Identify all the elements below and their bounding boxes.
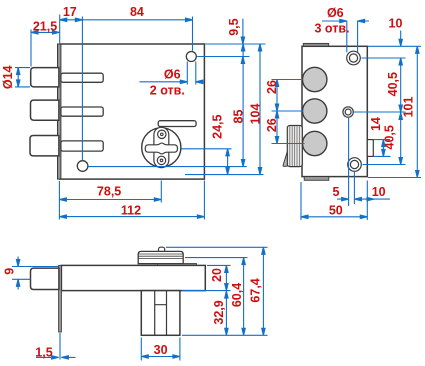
- svg-text:21,5: 21,5: [33, 19, 57, 33]
- dimension 5 (side hole offset): [333, 118, 355, 206]
- svg-text:3 отв.: 3 отв.: [314, 22, 349, 36]
- lock body (front view): [60, 44, 205, 179]
- lock body (bottom view): [61, 265, 205, 290]
- cylinder screw bottom: [157, 156, 165, 164]
- dimension diam 6, 3 holes (side): [314, 6, 369, 52]
- svg-text:84: 84: [130, 5, 144, 19]
- svg-text:24,5: 24,5: [211, 114, 225, 138]
- bolt 1 (front view): [31, 68, 59, 87]
- lock body (side view): [302, 46, 367, 176]
- svg-text:10: 10: [389, 16, 403, 30]
- dimension 9 (bottom bolt): [3, 257, 58, 290]
- svg-text:Ø14: Ø14: [1, 65, 15, 89]
- svg-text:101: 101: [402, 97, 416, 118]
- bolt end 3 (side view): [303, 131, 327, 155]
- thumbturn base plate (bottom view): [158, 264, 197, 266]
- strike tab (side view): [367, 140, 373, 157]
- svg-text:1,5: 1,5: [35, 345, 52, 359]
- dimension 14 (side strike tab): [369, 117, 391, 156]
- bolt 2 (front view): [31, 100, 59, 120]
- thumbturn stem (bottom view): [159, 247, 165, 252]
- cylinder flutes (side view): [290, 126, 300, 166]
- dimension 24,5 (front cylinder position): [182, 114, 232, 174]
- dimension diam 6, 2 holes (front): [140, 62, 204, 98]
- cylinder escutcheon oval: [154, 127, 169, 167]
- svg-text:40,5: 40,5: [386, 72, 400, 96]
- cylinder fin (side view): [283, 152, 287, 167]
- svg-text:9: 9: [3, 268, 17, 275]
- dimension 17 (front, face to hole line): [60, 5, 83, 160]
- svg-text:17: 17: [63, 5, 77, 19]
- cylinder housing (bottom view): [141, 291, 180, 336]
- svg-text:67,4: 67,4: [248, 278, 262, 302]
- bolt 1 tail: [61, 73, 103, 82]
- mounting hole top (side view): [347, 51, 361, 65]
- dimension 50 (side overall width): [301, 181, 367, 221]
- svg-text:85: 85: [231, 110, 245, 124]
- dimension diam 14 (bolt diameter, front): [1, 65, 30, 89]
- cover plate lip top (side view): [303, 43, 328, 46]
- cylinder screw top: [158, 130, 166, 138]
- thumbturn cap ridges: [138, 254, 183, 258]
- faceplate edge (front view): [58, 44, 61, 179]
- mounting hole middle (side view): [343, 107, 353, 117]
- thumbturn cap (bottom view): [138, 251, 183, 263]
- cylinder rosette (front view): [142, 128, 181, 167]
- svg-text:Ø6: Ø6: [327, 6, 344, 20]
- svg-text:20: 20: [210, 268, 224, 282]
- dimension 40,5 lower (side): [363, 112, 406, 165]
- faceplate (bottom view): [59, 265, 62, 332]
- svg-text:9,5: 9,5: [227, 18, 241, 35]
- keyway slot: [145, 143, 177, 154]
- svg-text:26: 26: [265, 80, 279, 94]
- dimension 26 upper (side bolt spacing): [265, 80, 303, 112]
- svg-text:78,5: 78,5: [97, 185, 121, 199]
- mounting hole bottom (side view): [348, 158, 362, 172]
- bolt (bottom view): [31, 268, 59, 289]
- svg-text:2 отв.: 2 отв.: [150, 84, 185, 98]
- dimension 9,5 (front, top hole offset): [197, 18, 265, 63]
- key cylinder (side view): [287, 126, 302, 167]
- svg-text:14: 14: [369, 117, 383, 131]
- dimension 32,9 (bottom housing depth): [182, 291, 268, 336]
- mounting hole top-right (front view): [186, 52, 196, 62]
- dimension 20 (bottom body depth): [182, 265, 231, 290]
- svg-text:26: 26: [265, 118, 279, 132]
- dimension 112 (front overall width): [59, 181, 204, 220]
- dimension 10 top (side): [362, 16, 422, 112]
- dimension 60,4 (bottom): [185, 258, 248, 336]
- svg-text:10: 10: [372, 185, 386, 199]
- dimension 84 (front, to top hole): [82, 5, 192, 51]
- dimension 101 (side overall height): [368, 46, 421, 177]
- dimension 40,5 upper (side): [354, 72, 406, 112]
- bolt 3 (front view): [30, 136, 59, 156]
- bolt 2 tail: [61, 107, 103, 116]
- svg-text:60,4: 60,4: [230, 283, 244, 307]
- svg-text:5: 5: [333, 185, 340, 199]
- bolt 3 tail: [61, 141, 103, 151]
- svg-text:Ø6: Ø6: [164, 67, 181, 81]
- thumbturn lever (front view): [158, 121, 196, 127]
- dimension 104 (front overall height): [185, 44, 264, 175]
- svg-text:32,9: 32,9: [212, 300, 226, 324]
- dimension 67,4 (bottom overall): [166, 247, 268, 335]
- bolt end 1 (side view): [303, 67, 327, 91]
- dimension 30 (bottom housing width): [141, 338, 180, 361]
- mounting hole bottom-left (front view): [77, 161, 88, 172]
- dimension 78,5 (front cylinder x): [59, 181, 161, 220]
- bolt end 2 (side view): [303, 99, 327, 123]
- dimension 26 lower (side bolt spacing): [265, 111, 304, 144]
- dimension 85 (front height to hole line): [88, 44, 247, 167]
- svg-text:112: 112: [121, 204, 141, 218]
- dimension 1,5 (faceplate thickness): [35, 333, 75, 360]
- svg-text:30: 30: [154, 343, 168, 357]
- cover plate lip bottom (side view): [304, 177, 329, 181]
- svg-text:50: 50: [329, 203, 343, 217]
- dimension 10 bottom (side hole offset): [354, 185, 390, 201]
- dimension 21,5 (front bolt protrusion): [31, 15, 60, 67]
- svg-text:104: 104: [248, 104, 262, 125]
- cylinder housing inner walls: [155, 291, 167, 336]
